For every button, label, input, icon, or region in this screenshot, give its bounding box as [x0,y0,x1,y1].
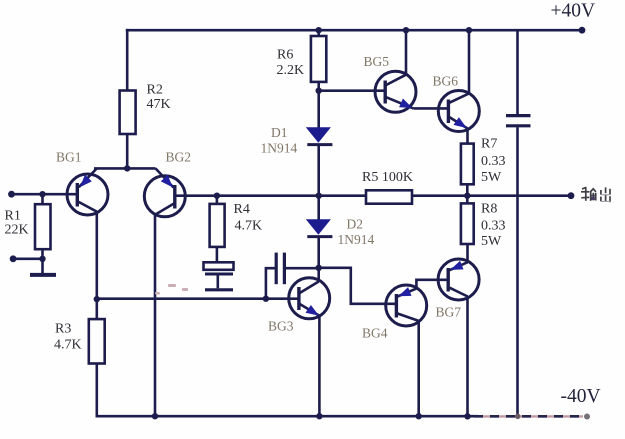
resistor R7 [461,144,474,185]
svg-text:1N914: 1N914 [338,232,375,247]
wire R8 bottom to BG7 emitter [466,244,469,262]
svg-text:BG6: BG6 [433,74,459,89]
wire BG1-BG2 emitter bus [94,167,156,170]
wire lower input stub [13,257,42,260]
svg-text:22K: 22K [5,222,29,237]
resistor R6 [311,36,326,82]
svg-text:4.7K: 4.7K [235,218,263,233]
transistor BG1 (PNP) [67,168,108,215]
node dot BG7 collector on bottom rail [464,413,470,419]
node dot D2 cathode junction [316,265,322,271]
wire C2 left lead and drop to BG3 base node [266,268,276,299]
node dot +40V rail end [579,27,586,34]
wire node to D1 anode [317,91,320,129]
svg-text:BG7: BG7 [436,305,462,320]
wire bottom -40V rail [96,415,479,418]
wire R6 to BG5 base [319,89,386,92]
node dot BG5 collector on rail [403,27,409,33]
svg-text:1N914: 1N914 [261,141,298,156]
wire BG2 base / mid rail to output [175,194,571,197]
transistor BG7 (PNP) [438,259,479,300]
node dot BG4 collector on bottom rail [416,413,422,419]
wire D2 cathode to node [317,237,320,268]
resistor R5 [366,190,412,203]
node dot C2 to BG3 base [263,296,269,302]
wire BG2 collector down to rail [154,215,157,416]
wire R2 top drop [126,29,129,91]
transistor BG6 (NPN) [438,91,479,132]
resistor R2 [120,91,136,135]
node dot output terminal [568,192,575,199]
node dot BG1 collector / R3 [94,296,100,302]
wire BG6 collector up to rail [468,30,471,93]
svg-text:5W: 5W [481,234,502,249]
svg-text:R7: R7 [481,137,497,152]
wire R7 bottom lead [466,184,469,195]
node dot R1 top junction [39,191,45,197]
wire D1 cathode to mid rail [317,145,320,196]
ground [30,273,56,277]
node dot R4 top on mid rail [214,193,220,199]
wire BG1 collector to BG3 base [97,297,299,300]
resistor R8 [461,203,474,244]
transistor BG5 (NPN) [375,71,416,112]
node dot BG2 collector on bottom rail [152,413,158,419]
node dot lower input terminal [10,255,17,262]
wire R1 bottom lead [41,249,44,259]
resistor R1 [35,204,51,249]
wire BG5 emitter to BG6 base [413,107,448,110]
node dot BG6 collector on rail [466,27,472,33]
wire filter cap C3 bottom lead [516,127,519,416]
transistor BG2 (PNP, mirrored) [144,168,185,216]
wire BG7 base from BG4 emitter [416,280,448,289]
svg-text:BG5: BG5 [364,54,390,69]
svg-text:BG1: BG1 [56,150,82,165]
wire R2 bottom to emitter bus [126,134,129,168]
wire BG5 collector up to rail [405,30,408,74]
svg-text:R4: R4 [234,202,250,217]
svg-text:0.33: 0.33 [481,219,506,234]
transistor BG4 (PNP) [386,285,427,326]
svg-text:R2: R2 [147,83,163,98]
node dot R1 bottom junction [39,256,45,262]
wire BG7 collector down to rail [466,296,469,416]
wire node to BG4 base (right, down, right) [319,268,397,304]
svg-text:R1: R1 [5,208,21,223]
watermark remnant marks [155,284,188,295]
wire ground lead [41,259,44,274]
wire bottom rail faded watermark segment [474,415,583,417]
wire R4 bottom lead [216,247,219,263]
svg-text:+40V: +40V [551,1,596,22]
wire C2 right lead [284,267,318,270]
transistor BG3 (NPN) [289,278,330,319]
diode D2 1N914 [306,219,333,236]
svg-text:5W: 5W [481,170,502,185]
svg-text:-40V: -40V [561,386,601,407]
node dot BG3 emitter on bottom rail [316,413,322,419]
node dot D1-D2 on mid rail [316,193,322,199]
svg-text:4.7K: 4.7K [54,337,82,352]
wire R4 top lead [216,196,219,204]
label output 输出 (drawn glyphs) [581,187,611,202]
wire R1 top lead [41,194,44,204]
wire node down to BG3 collector [317,268,320,282]
capacitor C2 coupling at BG3 [276,253,284,285]
svg-text:BG2: BG2 [166,150,192,165]
svg-text:R5 100K: R5 100K [362,170,413,185]
svg-text:0.33: 0.33 [481,154,506,169]
node dot input terminal [8,191,15,198]
wire input to BG1 base [12,193,78,196]
capacitor C1 electrolytic below R4 [204,262,234,290]
wire R3 top lead [96,299,99,319]
svg-text:BG3: BG3 [268,319,294,334]
svg-text:BG4: BG4 [362,326,388,341]
svg-text:D2: D2 [347,217,364,232]
wire filter cap C3 top lead [516,30,519,114]
node dot R7-R8 output junction [464,193,470,199]
wire R8 top lead [466,196,469,204]
resistor R4 [210,204,225,247]
svg-text:R6: R6 [277,47,293,62]
svg-text:D1: D1 [271,125,288,140]
wire R3 bottom lead [96,364,99,417]
resistor R3 [89,319,105,363]
wire BG6 emitter to R7 [466,129,469,144]
wire BG3 emitter down to rail [318,316,321,416]
wire BG1 collector down [96,211,99,299]
svg-text:47K: 47K [147,97,171,112]
wire top +40V rail [126,29,582,32]
node dot emitter bus / R2 [124,165,130,171]
node dot R6 bottom / BG5 base [316,88,322,94]
wire R6 bottom lead [317,82,320,91]
diode D1 1N914 [306,127,333,144]
node dot C3 on bottom rail (faded) [515,414,521,420]
svg-text:R8: R8 [481,201,497,216]
svg-text:R3: R3 [55,322,71,337]
node dot R6 top on rail [316,27,322,33]
wire R6 top lead [317,30,320,36]
wire mid rail to D2 anode [317,196,320,221]
wire BG4 collector down to rail [417,321,420,417]
capacitor C3 supply filter [506,116,531,126]
svg-text:2.2K: 2.2K [277,63,305,78]
node dot -40V rail end (faded) [584,414,590,420]
